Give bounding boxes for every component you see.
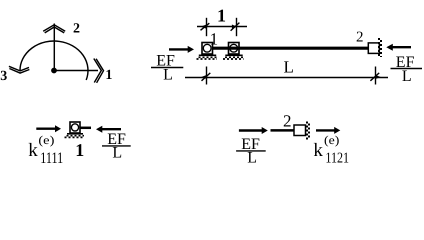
svg-text:(e): (e) [324, 133, 339, 147]
svg-text:2: 2 [73, 22, 80, 37]
svg-text:L: L [284, 58, 294, 77]
svg-text:1111: 1111 [40, 150, 63, 167]
svg-text:1: 1 [217, 6, 226, 26]
svg-text:2: 2 [283, 112, 292, 131]
svg-text:(e): (e) [38, 133, 54, 147]
svg-text:L: L [163, 67, 173, 84]
svg-text:L: L [247, 150, 257, 167]
svg-text:L: L [112, 145, 122, 162]
svg-text:k: k [313, 140, 323, 161]
svg-text:1: 1 [210, 29, 219, 48]
svg-text:1: 1 [105, 68, 112, 83]
svg-text:1: 1 [75, 140, 84, 160]
svg-text:k: k [28, 140, 38, 161]
svg-text:1121: 1121 [325, 151, 349, 167]
svg-text:L: L [402, 68, 412, 85]
svg-text:3: 3 [0, 69, 7, 84]
svg-text:2: 2 [356, 30, 364, 46]
